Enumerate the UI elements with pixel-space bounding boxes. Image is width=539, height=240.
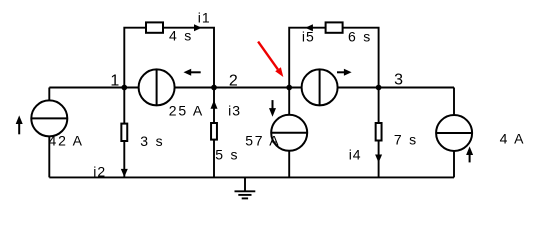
resistor 5 s bbox=[211, 123, 217, 140]
svg-text:25 A: 25 A bbox=[169, 103, 204, 119]
red annotation arrow pointing at middle node bbox=[258, 42, 283, 77]
svg-text:3 s: 3 s bbox=[140, 133, 164, 149]
wire middle branch x=289.2 bbox=[288, 88, 290, 178]
current arrow i4 bbox=[375, 155, 382, 163]
current source 57 A bbox=[269, 100, 307, 151]
current arrow i5 bbox=[305, 24, 313, 31]
svg-text:2: 2 bbox=[229, 73, 238, 90]
node 3 dot bbox=[376, 85, 382, 91]
svg-text:1: 1 bbox=[110, 73, 119, 90]
ground bbox=[235, 177, 256, 198]
current source 42 A bbox=[16, 100, 68, 136]
svg-text:57 A: 57 A bbox=[245, 132, 280, 148]
current arrow i3 bbox=[211, 100, 218, 109]
svg-text:i5: i5 bbox=[302, 29, 315, 45]
current source 4 A bbox=[436, 115, 473, 162]
current source 25 A bbox=[139, 69, 201, 106]
current arrow i2 bbox=[121, 169, 128, 177]
wire bottom rail y=177.4 bbox=[49, 176, 454, 178]
node 2 dot bbox=[211, 85, 217, 91]
wire left branch x=49.3 bbox=[48, 88, 50, 178]
current arrow i1 bbox=[194, 24, 202, 31]
svg-text:4 A: 4 A bbox=[500, 131, 526, 147]
wire node3 branch x=378.6 bbox=[378, 88, 380, 178]
resistor 6 s bbox=[326, 22, 343, 32]
svg-text:i1: i1 bbox=[198, 10, 211, 26]
wire top rail of right top loop bbox=[289, 28, 378, 88]
node junction middle (red arrow target) bbox=[286, 85, 292, 91]
svg-text:3: 3 bbox=[394, 72, 403, 89]
current source unnamed (right loop) bbox=[302, 69, 352, 106]
wire top rail of left top loop bbox=[124, 28, 214, 88]
svg-text:5 s: 5 s bbox=[215, 147, 239, 163]
svg-text:i3: i3 bbox=[228, 103, 241, 119]
svg-text:i2: i2 bbox=[93, 164, 106, 180]
resistor 7 s bbox=[376, 123, 382, 141]
svg-text:7 s: 7 s bbox=[394, 131, 418, 147]
resistor 4 s bbox=[146, 22, 163, 32]
svg-text:6 s: 6 s bbox=[348, 29, 372, 45]
svg-text:4 s: 4 s bbox=[169, 28, 193, 44]
wire node1 branch x=124.3 bbox=[123, 88, 125, 178]
wire right branch x=454 bbox=[453, 88, 455, 178]
svg-text:i4: i4 bbox=[349, 147, 362, 163]
node 1 dot bbox=[121, 85, 127, 91]
wire main horizontal rail y=87.5 bbox=[49, 87, 454, 89]
resistor 3 s bbox=[121, 124, 127, 141]
wire node2 branch x=214 bbox=[213, 88, 215, 178]
svg-text:42 A: 42 A bbox=[49, 132, 84, 148]
